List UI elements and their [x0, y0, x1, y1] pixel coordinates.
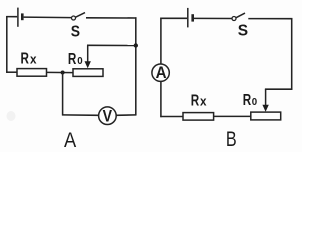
switch A lever — [76, 13, 85, 18]
resistor Rx (A) body — [17, 69, 47, 77]
svg-text:x: x — [200, 94, 207, 109]
rheostat R0 (A) wiper arrowhead — [85, 61, 91, 68]
rheostat R0 (A) body — [73, 69, 103, 77]
battery A short thick plate — [21, 13, 24, 20]
wire: voltmeter to bottom right corner — [116, 114, 137, 116]
wire: circuit A top-left horizontal to battery — [6, 16, 17, 18]
svg-text:B: B — [226, 127, 237, 151]
faint scan smudge — [7, 111, 16, 121]
wire: circuit A left vertical — [6, 16, 8, 73]
wire: battery B to switch B — [194, 17, 232, 19]
wire: circuit B left top corner to battery — [160, 17, 187, 19]
rheostat R0 (B) body — [251, 112, 281, 120]
wire: bottom left to Rx (B) — [160, 116, 183, 118]
node: junction dot on right wire (A) — [134, 43, 138, 47]
svg-text:0: 0 — [77, 56, 83, 67]
wire: wiper to right vertical (B) — [265, 88, 293, 90]
svg-text:S: S — [71, 23, 80, 41]
wire: circuit A right vertical — [135, 17, 137, 115]
wire: circuit B left vertical lower — [160, 81, 162, 117]
svg-text:A: A — [64, 129, 77, 152]
node: junction dot between Rx and R0 (A) — [61, 71, 65, 75]
rheostat R0 (B) wiper arrowhead — [262, 105, 268, 112]
switch B pivot circle — [232, 17, 236, 21]
rheostat R0 (B) wiper stem — [265, 89, 267, 106]
svg-text:R: R — [21, 49, 29, 67]
battery B long plate — [187, 8, 189, 28]
voltmeter V circle — [99, 107, 117, 125]
wire: junction down to bottom (A) — [62, 73, 64, 116]
wire: Rx to R0 (B) — [214, 115, 251, 117]
wire: circuit B right vertical — [291, 18, 293, 90]
wire: switch A to top-right corner — [86, 17, 137, 19]
switch B lever — [236, 13, 245, 18]
svg-text:V: V — [103, 108, 113, 126]
svg-text:S: S — [238, 22, 248, 39]
wire: left vertical to Rx — [6, 71, 17, 73]
svg-text:A: A — [156, 63, 167, 82]
svg-text:0: 0 — [252, 97, 258, 108]
wire: Rx to R0 with junction — [47, 71, 74, 73]
wire: circuit B left vertical upper (to ammeter) — [160, 18, 162, 65]
svg-text:R: R — [243, 90, 251, 108]
battery A long plate — [17, 8, 19, 27]
wire: switch B to top-right corner — [248, 18, 292, 20]
battery B short thick plate — [191, 14, 194, 21]
svg-text:R: R — [191, 91, 199, 109]
rheostat R0 (A) wiper stem — [87, 45, 89, 63]
svg-text:x: x — [30, 52, 37, 67]
wire: bottom left to voltmeter — [62, 114, 99, 116]
wire: wiper to right vertical (A) — [87, 44, 136, 46]
wire: battery A to switch A — [24, 16, 72, 19]
switch A pivot circle — [72, 16, 76, 20]
ammeter A circle — [152, 64, 169, 81]
svg-text:R: R — [68, 49, 76, 67]
resistor Rx (B) body — [183, 113, 214, 121]
